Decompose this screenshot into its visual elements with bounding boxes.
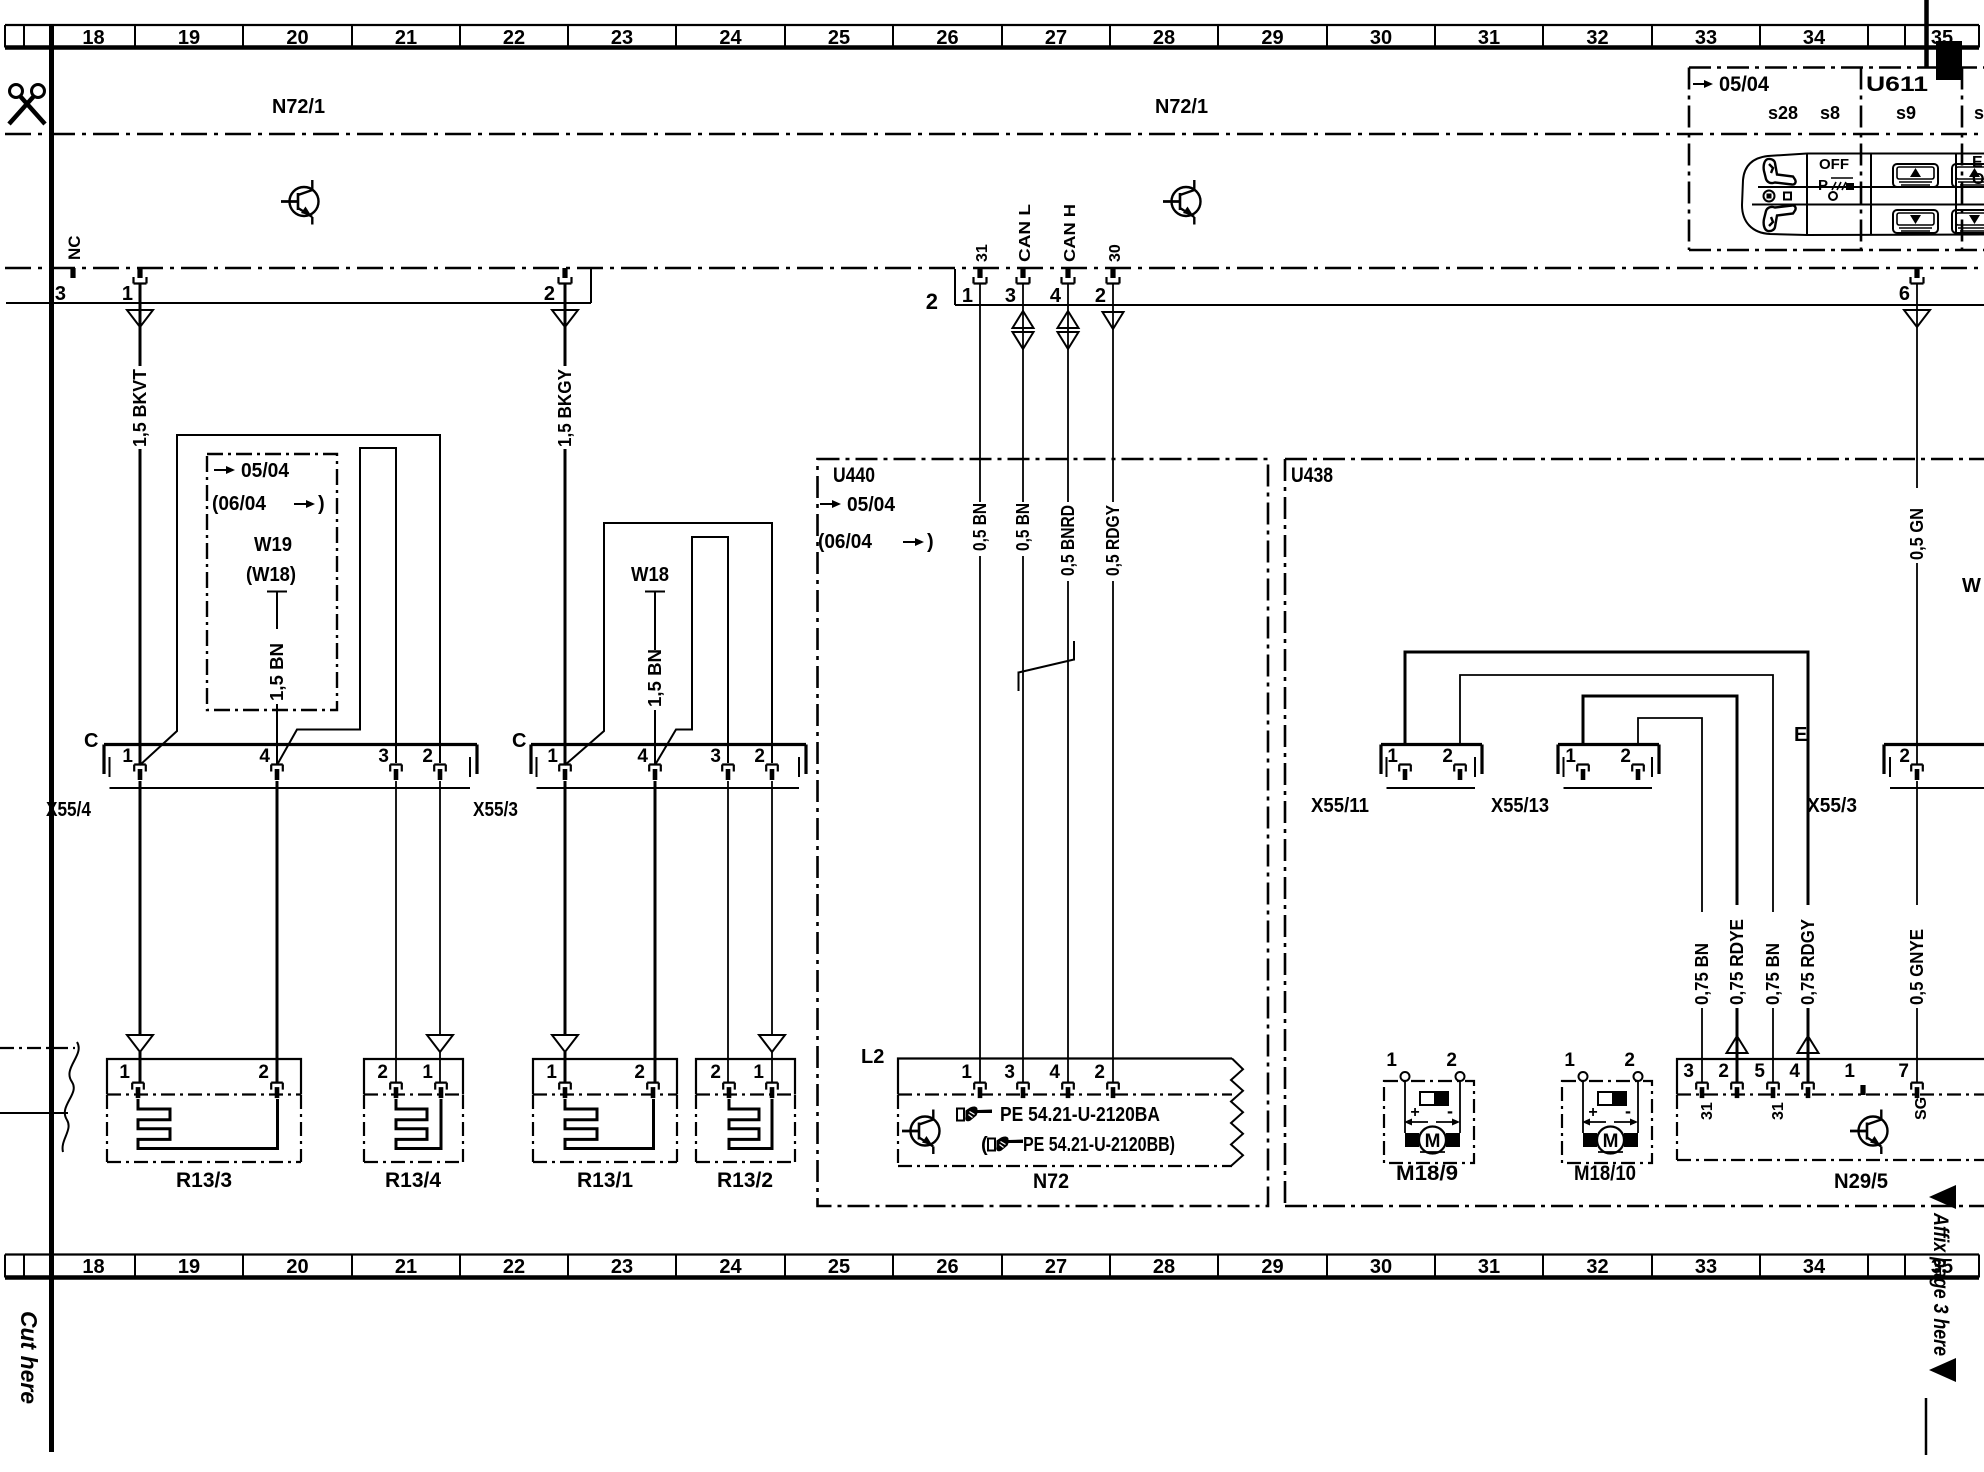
svg-text:(06/04: (06/04 (212, 493, 267, 515)
svg-text:R13/4: R13/4 (385, 1169, 441, 1192)
svg-text:W18: W18 (631, 564, 669, 586)
svg-text:2: 2 (1446, 1050, 1457, 1071)
svg-text:25: 25 (828, 27, 850, 49)
svg-text:3: 3 (55, 283, 66, 305)
svg-text:4: 4 (1789, 1061, 1800, 1082)
svg-text:26: 26 (936, 1256, 958, 1278)
svg-text:18: 18 (82, 27, 104, 49)
svg-text:X55/3: X55/3 (473, 799, 518, 821)
svg-text:1: 1 (122, 746, 133, 767)
svg-text:1,5 BKVT: 1,5 BKVT (130, 369, 150, 447)
svg-text:24: 24 (719, 27, 742, 49)
svg-text:3: 3 (710, 746, 721, 767)
svg-text:1,5 BN: 1,5 BN (645, 649, 665, 707)
svg-text:34: 34 (1803, 27, 1826, 49)
svg-text:3: 3 (378, 746, 389, 767)
svg-text:(06/04: (06/04 (818, 531, 873, 553)
svg-text:Cut here: Cut here (16, 1311, 42, 1404)
svg-text:X55/13: X55/13 (1491, 795, 1549, 817)
svg-text:PE 54.21-U-2120BA: PE 54.21-U-2120BA (1000, 1104, 1160, 1126)
svg-text:OFF: OFF (1819, 156, 1849, 173)
svg-text:31: 31 (1770, 1102, 1787, 1120)
svg-text:0,75 RDYE: 0,75 RDYE (1727, 919, 1747, 1005)
svg-text:34: 34 (1803, 1256, 1826, 1278)
svg-text:N72/1: N72/1 (272, 96, 325, 118)
svg-text:05/04: 05/04 (1719, 73, 1769, 96)
svg-text:R13/3: R13/3 (176, 1169, 232, 1192)
svg-text:U611: U611 (1866, 73, 1928, 96)
svg-text:0,5 BNRD: 0,5 BNRD (1058, 505, 1078, 576)
svg-text:1: 1 (547, 746, 558, 767)
svg-text:(W18): (W18) (246, 564, 296, 586)
svg-text:s1: s1 (1974, 103, 1984, 123)
svg-text:1,5 BN: 1,5 BN (267, 643, 287, 701)
svg-text:32: 32 (1586, 27, 1608, 49)
svg-text:24: 24 (719, 1256, 742, 1278)
svg-text:2: 2 (1899, 746, 1910, 767)
svg-text:(: ( (981, 1134, 988, 1156)
svg-text:X55/11: X55/11 (1311, 795, 1369, 817)
svg-text:30: 30 (1370, 27, 1392, 49)
svg-text:5: 5 (1754, 1061, 1765, 1082)
svg-text:1: 1 (1387, 746, 1398, 767)
svg-text:4: 4 (637, 746, 648, 767)
svg-text:23: 23 (611, 1256, 633, 1278)
svg-text:26: 26 (936, 27, 958, 49)
svg-text:21: 21 (395, 1256, 417, 1278)
svg-text:22: 22 (503, 1256, 525, 1278)
svg-text:W19: W19 (254, 534, 292, 556)
svg-text:29: 29 (1261, 1256, 1283, 1278)
svg-text:2: 2 (377, 1062, 388, 1083)
svg-text:05/04: 05/04 (847, 494, 896, 516)
svg-text:2: 2 (544, 283, 555, 305)
svg-text:+: + (1410, 1104, 1419, 1121)
svg-text:1: 1 (122, 283, 133, 305)
svg-text:18: 18 (82, 1256, 104, 1278)
svg-text:X55/4: X55/4 (46, 799, 92, 821)
svg-text:-: - (1447, 1101, 1453, 1121)
svg-text:1: 1 (546, 1062, 557, 1083)
svg-text:Affix page 3 here: Affix page 3 here (1929, 1212, 1952, 1356)
svg-text:N72: N72 (1033, 1170, 1069, 1193)
svg-text:0,75 RDGY: 0,75 RDGY (1798, 919, 1818, 1005)
svg-text:SG: SG (1913, 1097, 1930, 1120)
svg-text:1: 1 (422, 1062, 433, 1083)
svg-text:33: 33 (1695, 1256, 1717, 1278)
svg-text:31: 31 (974, 244, 991, 262)
svg-text:1: 1 (1564, 1050, 1575, 1071)
svg-text:s8: s8 (1820, 103, 1840, 123)
svg-text:4: 4 (1049, 1062, 1060, 1083)
svg-text:W: W (1962, 575, 1981, 597)
svg-text:E: E (1794, 724, 1807, 746)
svg-text:2: 2 (1718, 1061, 1729, 1082)
svg-text:19: 19 (178, 1256, 200, 1278)
svg-text:6: 6 (1899, 283, 1910, 305)
svg-text:4: 4 (259, 746, 270, 767)
svg-text:33: 33 (1695, 27, 1717, 49)
svg-text:C: C (84, 730, 98, 752)
svg-text:31: 31 (1478, 27, 1500, 49)
svg-text:31: 31 (1699, 1102, 1716, 1120)
svg-text:1,5 BKGY: 1,5 BKGY (555, 369, 575, 447)
svg-text:32: 32 (1586, 1256, 1608, 1278)
svg-text:U440: U440 (833, 464, 875, 487)
svg-text:X55/3: X55/3 (1807, 795, 1857, 817)
svg-text:2: 2 (1094, 1062, 1105, 1083)
svg-text:29: 29 (1261, 27, 1283, 49)
svg-text:21: 21 (395, 27, 417, 49)
svg-text:28: 28 (1153, 27, 1175, 49)
svg-text:): ) (927, 531, 934, 553)
svg-text:2: 2 (1624, 1050, 1635, 1071)
svg-text:0,5 BN: 0,5 BN (970, 503, 990, 551)
svg-text:1: 1 (119, 1062, 130, 1083)
svg-text:0,75 BN: 0,75 BN (1763, 943, 1783, 1005)
svg-text:3: 3 (1004, 1062, 1015, 1083)
svg-text:PE 54.21-U-2120BB): PE 54.21-U-2120BB) (1023, 1134, 1175, 1156)
svg-text:0,5 GNYE: 0,5 GNYE (1907, 929, 1927, 1005)
svg-text:1: 1 (1844, 1061, 1855, 1082)
svg-text:30: 30 (1370, 1256, 1392, 1278)
svg-text:0,5 BN: 0,5 BN (1013, 503, 1033, 551)
svg-text:s28: s28 (1768, 103, 1798, 123)
svg-text:): ) (318, 493, 325, 515)
svg-text:31: 31 (1478, 1256, 1500, 1278)
svg-text:-: - (1625, 1101, 1631, 1121)
svg-text:R13/2: R13/2 (717, 1169, 773, 1192)
svg-text:U438: U438 (1291, 464, 1333, 487)
svg-text:30: 30 (1107, 244, 1124, 262)
svg-text:CAN L: CAN L (1017, 204, 1034, 262)
svg-text:20: 20 (286, 27, 308, 49)
svg-text:20: 20 (286, 1256, 308, 1278)
svg-text:2: 2 (258, 1062, 269, 1083)
svg-text:2: 2 (926, 289, 938, 314)
svg-text:0,5 GN: 0,5 GN (1907, 508, 1927, 560)
svg-text:05/04: 05/04 (241, 460, 290, 482)
svg-text:22: 22 (503, 27, 525, 49)
svg-text:R13/1: R13/1 (577, 1169, 633, 1192)
svg-text:3: 3 (1683, 1061, 1694, 1082)
svg-text:M18/9: M18/9 (1396, 1162, 1458, 1185)
svg-text:2: 2 (754, 746, 765, 767)
svg-text:19: 19 (178, 27, 200, 49)
svg-text:1: 1 (1386, 1050, 1397, 1071)
svg-text:3: 3 (1005, 285, 1016, 307)
svg-text:s9: s9 (1896, 103, 1916, 123)
svg-text:28: 28 (1153, 1256, 1175, 1278)
svg-text:L2: L2 (861, 1046, 884, 1068)
svg-text:27: 27 (1045, 27, 1067, 49)
svg-text:4: 4 (1050, 285, 1062, 307)
svg-text:2: 2 (634, 1062, 645, 1083)
svg-text:23: 23 (611, 27, 633, 49)
svg-text:P: P (1818, 177, 1828, 194)
svg-text:2: 2 (1095, 285, 1106, 307)
svg-text:25: 25 (828, 1256, 850, 1278)
svg-text:2: 2 (422, 746, 433, 767)
svg-text:M: M (1603, 1131, 1619, 1152)
svg-text:CAN H: CAN H (1062, 204, 1079, 262)
svg-text:+: + (1588, 1104, 1597, 1121)
svg-text:2: 2 (1620, 746, 1631, 767)
svg-text:N29/5: N29/5 (1834, 1170, 1888, 1193)
svg-text:27: 27 (1045, 1256, 1067, 1278)
svg-text:0,5 RDGY: 0,5 RDGY (1103, 505, 1123, 576)
svg-text:C: C (512, 730, 526, 752)
svg-text:1: 1 (962, 285, 973, 307)
svg-text:O: O (1972, 171, 1984, 188)
svg-text:E: E (1972, 154, 1983, 171)
svg-text:7: 7 (1898, 1061, 1909, 1082)
svg-text:1: 1 (1565, 746, 1576, 767)
svg-text:2: 2 (710, 1062, 721, 1083)
svg-text:1: 1 (961, 1062, 972, 1083)
svg-text:1: 1 (753, 1062, 764, 1083)
svg-text:N72/1: N72/1 (1155, 96, 1208, 118)
svg-text:2: 2 (1442, 746, 1453, 767)
svg-text:NC: NC (65, 235, 84, 260)
svg-text:0,75 BN: 0,75 BN (1692, 943, 1712, 1005)
svg-text:M: M (1425, 1131, 1441, 1152)
svg-text:M18/10: M18/10 (1574, 1162, 1636, 1185)
